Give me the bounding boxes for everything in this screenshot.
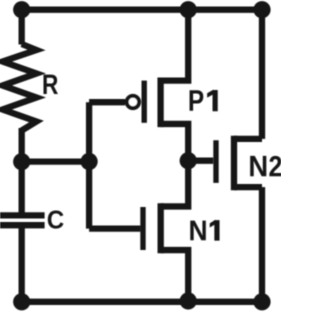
node junction dot R-C [13,153,30,170]
node junction dot top-right [253,1,270,18]
wire N2 source lead to right rail [234,184,262,190]
wire middle node right to N2 gate plate [188,158,213,164]
node junction dot bottom-right [253,293,270,310]
wire bottom ground rail [22,299,262,305]
wire resistor bottom to R-C node [19,128,25,162]
transistor N1 channel plate [158,203,164,253]
node junction dot bottom-left [13,293,30,310]
label N2 - N [250,156,266,176]
transistor P1 channel plate [157,78,163,128]
transistor P1 gate bubble [127,96,139,108]
wire gate bus top to P1 gate bubble [89,99,125,105]
transistor P1 gate plate [141,81,146,123]
node junction dot bottom-middle [180,292,197,309]
wire N1 source lead down to ground rail [161,250,189,301]
resistor R zigzag body [3,44,37,131]
node junction dot gate bus [81,153,98,170]
wire R-C node down to capacitor top plate [19,162,25,213]
label P1 - 1 [208,90,218,110]
node junction dot top-left [13,1,30,18]
transistor N1 gate plate [140,207,145,250]
label P1 - P [190,90,204,111]
label N2 - 2 [269,156,281,176]
wire gate bus bottom to N1 gate plate [89,225,140,231]
wire right rail upper segment [259,10,265,139]
wire P1 drain lead down to middle node [161,124,189,161]
wire R-C node right to gate bus node [22,158,89,164]
wire capacitor bottom plate down to ground rail [19,227,25,302]
capacitor C bottom plate [0,222,45,228]
wire VDD bus down to P1 source lead [161,10,189,81]
capacitor C top plate [0,212,45,218]
label C [48,210,64,228]
wire right rail lower segment [259,187,265,302]
label N1 - 1 [210,221,219,241]
wire top supply rail [22,7,262,13]
node junction dot top-middle [180,1,197,18]
transistor N2 gate plate [213,140,218,183]
label N1 - N [190,221,206,241]
transistor N2 channel plate [231,136,237,191]
node junction dot P1 drain / N1 drain / N2 gate [180,152,197,169]
label R [43,75,57,94]
wire top-left corner down to resistor [19,10,25,45]
wire gate bus vertical [86,102,92,228]
wire N2 drain lead to right rail [234,136,262,142]
wire middle node down to N1 drain lead [161,161,189,207]
